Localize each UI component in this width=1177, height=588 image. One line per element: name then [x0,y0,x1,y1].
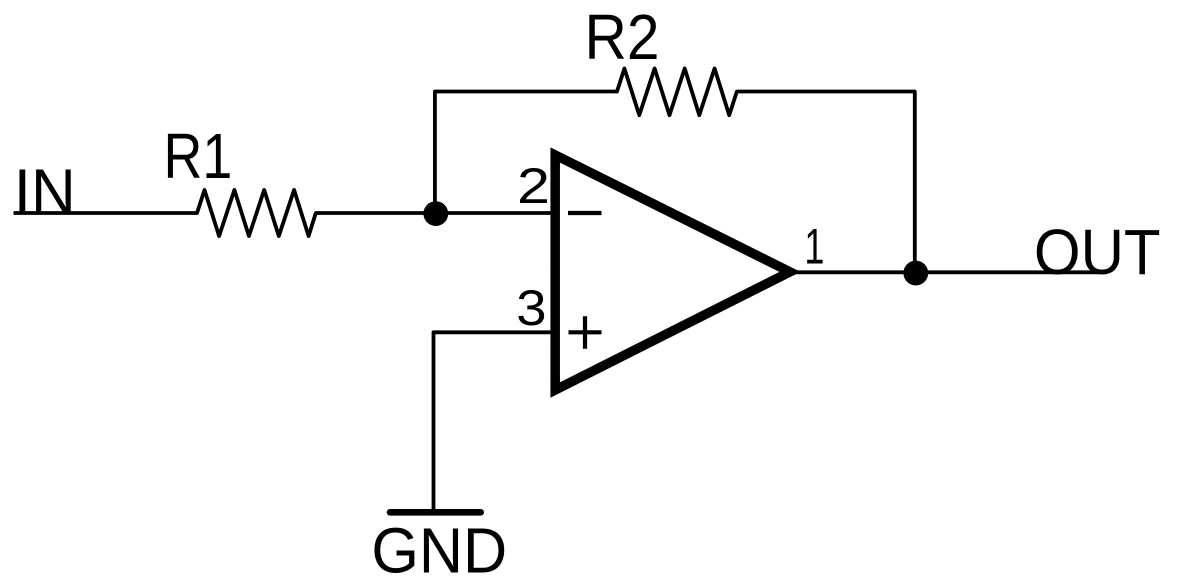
svg-text:IN: IN [14,156,76,228]
svg-text:R1: R1 [164,120,233,192]
svg-text:R2: R2 [585,1,660,73]
svg-text:2: 2 [517,158,550,214]
svg-text:3: 3 [516,280,546,336]
svg-text:1: 1 [804,219,824,275]
svg-text:OUT: OUT [1034,216,1161,288]
svg-text:GND: GND [371,515,507,587]
